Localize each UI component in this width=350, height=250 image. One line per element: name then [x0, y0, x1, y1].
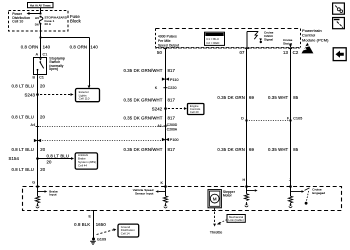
stepper motor drive signal arrow — [247, 187, 258, 194]
svg-text:S243: S243 — [24, 93, 35, 98]
resistor under K — [163, 196, 167, 208]
label: Hot At All Times — [28, 3, 54, 8]
vehicle speed sensor input signal — [133, 187, 166, 197]
pin A1 C200D C200A labels — [157, 123, 178, 132]
reference: exterior lights cell 110 — [76, 89, 100, 102]
stoplamp switch — [34, 56, 66, 74]
svg-text:S154: S154 — [8, 156, 19, 161]
svg-text:D: D — [241, 117, 244, 121]
svg-text:open): open) — [49, 67, 58, 71]
svg-text:Cell 14: Cell 14 — [121, 231, 130, 235]
wire label 0.8 LT BLU 20 below P100 — [11, 147, 45, 152]
svg-text:817: 817 — [168, 68, 176, 73]
svg-text:20: 20 — [40, 114, 46, 119]
toolbar button: detail view 1 — [333, 3, 345, 14]
fuse block dashed box — [9, 11, 69, 32]
svg-text:Input: Input — [49, 193, 56, 197]
fuse block label — [70, 14, 82, 24]
svg-text:C105: C105 — [293, 117, 302, 121]
pin E of cruise module — [88, 211, 94, 219]
svg-text:85: 85 — [293, 95, 299, 100]
note box: LED PCM / C1 = BLU / C2 = RED — [205, 32, 225, 45]
svg-text:0.8 LT BLU: 0.8 LT BLU — [11, 147, 34, 152]
svg-text:0.35 WHT: 0.35 WHT — [268, 95, 289, 100]
connector C200 pin A4 (left) to A1 (center) dotted line — [31, 123, 168, 127]
svg-text:A4: A4 — [31, 123, 36, 127]
svg-text:0.8 BLK: 0.8 BLK — [74, 222, 90, 227]
PCM internal: cruise status terminal — [283, 38, 293, 48]
pin J junction — [289, 178, 292, 188]
svg-text:G109: G109 — [97, 238, 106, 242]
svg-text:0.35 WHT: 0.35 WHT — [268, 147, 289, 152]
resistor under H — [244, 194, 248, 207]
svg-text:0.35 DK GRN: 0.35 DK GRN — [217, 95, 245, 100]
svg-text:P110: P110 — [170, 78, 179, 82]
wire: fuse output down to stoplamp switch (0.8 ORN 140) — [21, 24, 51, 57]
svg-text:1650: 1650 — [96, 222, 107, 227]
connector C220 pin K on center wire — [155, 86, 177, 90]
svg-text:C200A: C200A — [167, 128, 178, 132]
svg-text:Hot At All Times: Hot At All Times — [30, 4, 51, 8]
svg-text:20: 20 — [40, 84, 46, 89]
svg-text:20: 20 — [40, 167, 46, 172]
PCM dashed box — [156, 29, 301, 48]
wire 0.8 LT BLU 20 below switch — [11, 74, 45, 186]
pin A C1 of stoplamp switch — [36, 52, 48, 56]
svg-text:C1: C1 — [43, 52, 48, 56]
svg-text:Motor: Motor — [223, 193, 233, 197]
svg-text:817: 817 — [168, 116, 176, 121]
PCM internal: 4000 pulses per mile speed output — [158, 35, 179, 48]
fuse STOP/HAZARD Fuse 1 20 A — [35, 16, 68, 27]
wire label 0.35 DK GRN/WHT 817 (4th) — [123, 147, 175, 152]
reference: engine controls cell 20 — [188, 104, 204, 115]
wire label 0.8 LT BLU 20 above G — [11, 167, 45, 172]
stepper motor — [208, 190, 236, 208]
svg-text:69: 69 — [249, 147, 255, 152]
wire: PCM 13 cruise status down to J (0.35 WHT 85) — [268, 49, 299, 187]
svg-text:20: 20 — [47, 159, 53, 164]
svg-text:0.35 DK GRN/WHT: 0.35 DK GRN/WHT — [123, 68, 162, 73]
reference: antilock brake system (ABS) cell 44 — [75, 153, 97, 169]
wire label 0.35 DK GRN/WHT 817 (2nd) — [123, 98, 175, 103]
svg-text:Cell 110: Cell 110 — [79, 97, 90, 101]
svg-text:C2 = RED: C2 = RED — [206, 41, 219, 45]
svg-text:S242: S242 — [152, 107, 163, 112]
PCM hatched bottom edge — [156, 47, 299, 49]
svg-text:0.35 DK GRN/WHT: 0.35 DK GRN/WHT — [123, 98, 162, 103]
svg-text:140: 140 — [43, 44, 51, 49]
pin 50 of PCM — [157, 49, 167, 55]
svg-text:817: 817 — [168, 98, 176, 103]
svg-text:0.8 ORN: 0.8 ORN — [21, 44, 39, 49]
pin G junction — [32, 180, 39, 188]
svg-text:85: 85 — [293, 147, 299, 152]
svg-text:A1: A1 — [157, 124, 162, 128]
svg-text:C1: C1 — [39, 76, 44, 80]
grommet P110 on center wire — [162, 78, 179, 82]
wire: feed from hot at all times into fuse block — [27, 8, 42, 15]
wire: PCM 07 cruise inhibit down to H (0.35 DK GRN 69) — [217, 49, 254, 187]
wire: PCM 50 speed output down to K (0.35 DK GRN/WHT 817) — [123, 49, 175, 187]
ground G109 — [90, 238, 106, 245]
grommet P100 dotted line with bowties — [34, 138, 179, 142]
svg-text:M: M — [213, 196, 217, 201]
splice S243 — [24, 93, 73, 98]
connector C105 pins D and F — [241, 117, 302, 122]
mechanical link (cable) dashed line to throttle — [210, 208, 222, 235]
cruise control module dashed box — [23, 187, 342, 211]
svg-text:J: J — [289, 178, 291, 182]
svg-text:13: 13 — [283, 50, 289, 55]
splice S154 with branch to ABS — [8, 153, 74, 164]
resistor under J — [288, 196, 292, 208]
svg-text:0.35 DK GRN: 0.35 DK GRN — [217, 147, 245, 152]
dashed arrow to ground distribution reference — [97, 228, 117, 234]
toolbar button: back arrow — [333, 48, 346, 61]
svg-text:140: 140 — [90, 44, 98, 49]
svg-text:817: 817 — [168, 147, 176, 152]
svg-text:Cell 10: Cell 10 — [12, 19, 23, 23]
power distribution cell 10 reference text — [12, 12, 30, 23]
wire 0.8 BLK 1650 to ground — [74, 211, 106, 240]
wire label 0.35 DK GRN/WHT 817 (3rd) — [123, 116, 175, 121]
pin 07 of PCM — [239, 49, 248, 55]
svg-text:C220: C220 — [168, 86, 177, 90]
svg-text:20 A: 20 A — [45, 22, 52, 26]
svg-text:H: H — [242, 178, 245, 182]
svg-text:69: 69 — [249, 95, 255, 100]
svg-text:Cell 44: Cell 44 — [78, 164, 87, 168]
svg-text:P100: P100 — [170, 138, 179, 142]
PCM internal: cruise inhibit signal driver — [247, 30, 274, 47]
svg-text:Signal: Signal — [264, 38, 273, 42]
svg-text:C200D: C200D — [167, 123, 178, 127]
pin B C1 of stoplamp switch — [32, 76, 44, 80]
svg-text:Sensor Input: Sensor Input — [135, 191, 153, 195]
PCM label: Powertrain Control Module (PCM) — [302, 28, 329, 43]
svg-text:0.8 LT BLU: 0.8 LT BLU — [11, 114, 34, 119]
svg-text:Engaged: Engaged — [312, 191, 325, 195]
svg-text:Cell 20: Cell 20 — [190, 110, 199, 114]
svg-text:0.8 ORN: 0.8 ORN — [70, 44, 88, 49]
svg-text:D6: D6 — [35, 22, 39, 26]
pin H junction — [242, 178, 247, 188]
svg-text:20: 20 — [40, 147, 46, 152]
svg-text:0.8 LT BLU: 0.8 LT BLU — [11, 167, 34, 172]
cruise engaged switch — [291, 187, 326, 205]
pin K junction — [160, 181, 166, 188]
svg-text:Module (PCM): Module (PCM) — [302, 37, 329, 42]
svg-text:0.35 DK GRN/WHT: 0.35 DK GRN/WHT — [123, 147, 162, 152]
pin 13 C2 of PCM — [283, 49, 299, 55]
ESD warning triangle — [301, 43, 314, 54]
svg-text:G: G — [32, 180, 35, 184]
svg-text:50: 50 — [157, 50, 163, 55]
svg-text:0.8 LT BLU: 0.8 LT BLU — [47, 153, 70, 158]
splice S242 — [152, 107, 187, 112]
label: mechanical link (cable) — [217, 215, 246, 225]
brake input signal — [38, 187, 58, 197]
svg-text:Status: Status — [283, 42, 293, 46]
svg-text:C2: C2 — [293, 50, 299, 55]
svg-text:07: 07 — [239, 50, 245, 55]
toolbar button: detail view 2 — [333, 18, 345, 29]
svg-text:0.8 LT BLU: 0.8 LT BLU — [11, 84, 34, 89]
svg-text:Speed Output: Speed Output — [158, 43, 179, 47]
reference: ground distribution cell 14 — [118, 224, 139, 237]
svg-text:H6: H6 — [35, 16, 39, 20]
svg-text:Throttle: Throttle — [210, 230, 222, 234]
wire: branch 0.8 ORN 140 to exterior lights — [41, 38, 99, 89]
svg-text:0.35 DK GRN/WHT: 0.35 DK GRN/WHT — [123, 116, 162, 121]
svg-text:Block: Block — [70, 18, 82, 23]
svg-text:Link (Cable): Link (Cable) — [229, 218, 244, 222]
resistor under G — [35, 196, 39, 208]
svg-text:4000 Pulses: 4000 Pulses — [158, 35, 177, 39]
wire label 0.8 LT BLU 20 above C200 — [11, 114, 45, 119]
